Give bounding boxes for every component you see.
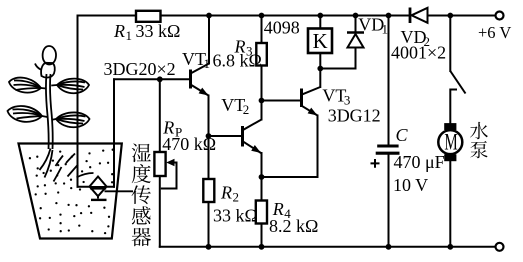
resistor R1 bbox=[136, 11, 161, 22]
wire VD1 cathode stub bbox=[355, 16, 357, 33]
svg-text:33 kΩ: 33 kΩ bbox=[136, 21, 181, 41]
svg-text:1: 1 bbox=[382, 21, 389, 36]
plant bud bbox=[35, 46, 56, 78]
wire motor bottom bbox=[449, 161, 451, 247]
svg-text:1: 1 bbox=[126, 28, 133, 43]
wire VT2 emitter drop bbox=[261, 153, 263, 177]
svg-text:R: R bbox=[234, 36, 246, 56]
diode VD1 bbox=[347, 33, 364, 48]
svg-text:M: M bbox=[444, 129, 457, 155]
svg-text:4001×2: 4001×2 bbox=[391, 43, 446, 63]
wire RP bottom to ground rail bbox=[159, 176, 161, 247]
wire switch top bbox=[449, 16, 451, 72]
transistor VT3 bbox=[302, 87, 321, 116]
svg-text:VD: VD bbox=[358, 14, 384, 34]
wire VT1 collector riser bbox=[208, 16, 210, 64]
label water pump chinese bbox=[470, 122, 488, 158]
moisture sensor symbol bbox=[90, 177, 107, 200]
wire RP top drop bbox=[159, 79, 161, 152]
wire K top bbox=[319, 16, 321, 29]
diode VD2 bbox=[410, 8, 428, 24]
svg-text:3DG20×2: 3DG20×2 bbox=[104, 59, 176, 79]
wire right probe riser bbox=[113, 79, 115, 187]
wire VD1 anode stub bbox=[355, 48, 357, 69]
plant leaves bbox=[8, 78, 90, 128]
resistor R3 bbox=[256, 43, 267, 66]
switch S bbox=[450, 71, 465, 94]
transistor VT1 bbox=[191, 64, 210, 96]
resistor R2 bbox=[203, 179, 214, 202]
soil dots bbox=[29, 149, 114, 235]
wire capacitor top bbox=[388, 16, 390, 145]
potentiometer RP body bbox=[154, 152, 165, 176]
svg-text:8.2 kΩ: 8.2 kΩ bbox=[269, 216, 318, 236]
wire R2 bottom bbox=[208, 202, 210, 247]
wire VT3 base bbox=[262, 100, 301, 102]
svg-text:4098: 4098 bbox=[264, 18, 300, 38]
svg-text:3: 3 bbox=[246, 43, 253, 58]
svg-text:33 kΩ: 33 kΩ bbox=[213, 206, 258, 226]
plant stem bbox=[46, 74, 53, 149]
wire VT1 emitter drop to R2 bbox=[208, 96, 210, 180]
potentiometer RP wiper bbox=[161, 163, 177, 189]
wire R4 top bbox=[261, 177, 263, 201]
svg-text:C: C bbox=[396, 125, 409, 145]
wire left electrode drop bbox=[77, 16, 79, 187]
wire sensor bottom bbox=[78, 186, 115, 188]
capacitor C plus sign bbox=[371, 159, 380, 168]
svg-text:VT: VT bbox=[322, 85, 346, 105]
wire R4 bottom bbox=[261, 224, 263, 247]
wire VT1 base bbox=[114, 78, 189, 80]
wire top rail right segment bbox=[428, 15, 496, 17]
wire R3 bottom to node bbox=[261, 66, 263, 101]
motor M pump bbox=[438, 123, 462, 161]
svg-text:10 V: 10 V bbox=[393, 175, 428, 195]
wire K bottom to collector node bbox=[319, 53, 321, 87]
svg-text:VT: VT bbox=[221, 95, 245, 115]
svg-text:3DG12: 3DG12 bbox=[328, 106, 381, 126]
svg-text:K: K bbox=[313, 30, 328, 53]
sensor leader line bbox=[105, 190, 134, 192]
wire bottom rail bbox=[160, 246, 496, 248]
capacitor C plates bbox=[376, 146, 400, 153]
wire VT2 base bbox=[209, 135, 242, 137]
svg-text:2: 2 bbox=[233, 190, 240, 205]
flower pot bbox=[19, 144, 122, 239]
svg-text:VT: VT bbox=[182, 49, 206, 69]
label moisture sensor chinese bbox=[132, 143, 151, 246]
terminal +6V bbox=[496, 12, 504, 20]
svg-text:R: R bbox=[220, 183, 232, 203]
wire VT2 collector riser bbox=[261, 101, 263, 120]
wire motor top bbox=[449, 90, 451, 124]
svg-text:R: R bbox=[113, 21, 125, 41]
wire top rail left segment bbox=[78, 15, 137, 17]
relay K coil bbox=[308, 29, 332, 54]
wire VD1 anode link bbox=[320, 68, 355, 70]
svg-text:470 kΩ: 470 kΩ bbox=[162, 134, 216, 154]
svg-text:+6 V: +6 V bbox=[478, 23, 511, 42]
plant roots bbox=[40, 149, 94, 182]
wire top rail middle segment bbox=[161, 15, 410, 17]
terminal bottom right bbox=[496, 243, 504, 251]
wire emitter tie R4 to VT3 bbox=[262, 116, 318, 178]
wire R3 top bbox=[261, 16, 263, 44]
svg-text:470 μF: 470 μF bbox=[394, 152, 445, 172]
resistor R4 bbox=[256, 201, 267, 224]
transistor VT2 bbox=[243, 120, 262, 154]
svg-text:2: 2 bbox=[243, 102, 250, 117]
svg-text:1: 1 bbox=[204, 56, 211, 71]
wire capacitor bottom bbox=[388, 155, 390, 247]
